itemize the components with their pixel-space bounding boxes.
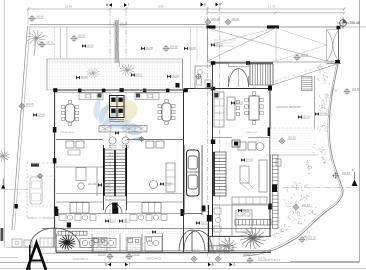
column P2 top wall: [78, 89, 81, 93]
roof terrace diagonal 1: [208, 28, 327, 61]
left building left wall: [54, 90, 56, 228]
benchmark circle 200.45: [337, 17, 360, 29]
spot marker garden 2: [141, 47, 153, 51]
svg-text:K: K: [352, 168, 354, 172]
palm bottom centre: [219, 239, 237, 254]
survey marker bottom D: [215, 250, 225, 263]
washer units: [80, 239, 116, 248]
wc fixtures rb: [197, 70, 212, 88]
island chairs: [236, 100, 239, 115]
garage car body: [187, 150, 200, 196]
spot marker under fireplace: [115, 131, 119, 135]
spot marker terrace: [315, 112, 327, 116]
dining table right building: [245, 92, 263, 124]
roof terrace bottom band: [327, 63, 342, 65]
round tables centre: [109, 137, 129, 148]
lower terrace step box: [276, 159, 281, 166]
entrance door arcs: [229, 68, 249, 87]
column P4 top wall: [120, 88, 124, 92]
svg-text:200.48: 200.48: [212, 18, 220, 21]
plant curve 5: [293, 212, 306, 225]
left building lower-left wall: [55, 228, 57, 252]
kitchen sink left: [86, 94, 90, 98]
kitchen counter left dividers: [85, 93, 97, 100]
section arrow B bottom: [105, 263, 111, 267]
road kerb curve outer: [243, 62, 343, 256]
spot marker garden 3: [184, 47, 196, 51]
spot marker terrace 2: [298, 115, 310, 119]
benchmark flag right: [352, 168, 358, 186]
gate path line 2: [66, 27, 68, 58]
sideboard row: [99, 126, 147, 133]
survey marker near fan: [294, 54, 309, 61]
svg-text:240.95: 240.95: [36, 16, 44, 19]
setback dashed vertical: [54, 27, 56, 58]
kitchen counter rb: [214, 92, 224, 127]
spot marker rb hall: [231, 101, 243, 105]
watermark small waves: [128, 131, 144, 140]
easel triangle: [27, 243, 46, 270]
spot marker rb living: [241, 158, 253, 162]
svg-text:200.90: 200.90: [98, 253, 106, 256]
column RB x270 mid: [268, 128, 271, 137]
kitchen dark appliance: [215, 93, 219, 98]
garage gate arcs right: [184, 231, 212, 250]
wall chunk left bottom: [55, 209, 58, 216]
palm small upper: [87, 68, 100, 79]
sideboard X left: [99, 126, 111, 133]
plot boundary top fence line 2: [30, 26, 366, 28]
plant curve extra 1: [322, 154, 332, 165]
survey marker courtyard: [195, 73, 202, 80]
interior wall rb y137 b: [248, 137, 270, 139]
carport survey marker: [37, 173, 43, 179]
spot marker bottom: [152, 230, 163, 234]
right building top wall: [212, 62, 273, 64]
svg-text:202.36: 202.36: [308, 237, 316, 240]
entrance steps flight: [250, 64, 273, 85]
retaining wall pillar: [272, 185, 277, 193]
interior wall y193: [56, 193, 184, 195]
survey marker bottom B: [98, 253, 114, 260]
svg-text:200.66: 200.66: [78, 35, 86, 38]
survey marker centre living: [138, 136, 144, 142]
roof terrace label lines: [214, 40, 236, 46]
kitchen appliances rb: [214, 99, 224, 120]
interior vertical x162: [162, 228, 164, 252]
hedge speckle right 3: [325, 108, 333, 118]
terrace small stair: [302, 77, 313, 91]
spot marker rb court2: [238, 209, 249, 213]
cypress tall centre: [115, 20, 120, 67]
wc row left unit: [59, 215, 96, 221]
column left wall lower: [54, 207, 57, 214]
column passage corner: [207, 83, 211, 88]
L-sofa right unit: [166, 163, 175, 192]
fireplace upper boxes: [110, 96, 125, 118]
terrace right wall: [314, 76, 316, 130]
palm left edge: [0, 150, 10, 162]
spot marker left court: [131, 73, 142, 77]
terrace roof slope dashed: [271, 62, 336, 83]
spot marker left wall: [33, 113, 45, 117]
hedge speckle right 2: [319, 94, 332, 103]
stair centre rail: [114, 150, 116, 196]
window 3pane right unit: [142, 203, 161, 214]
interior vertical x126 stairwell: [126, 145, 128, 210]
utility room centre: [145, 237, 162, 252]
svg-text:13.75: 13.75: [268, 5, 275, 9]
vanity desk left unit: [76, 168, 86, 181]
stair treads double flight: [105, 150, 125, 196]
section arrow G bottom: [125, 263, 131, 267]
fireplace inner dark 4: [118, 109, 122, 113]
page frame right border: [359, 0, 361, 262]
interior wall rb y137: [213, 137, 233, 139]
hedge speckle right 4: [318, 122, 329, 132]
fireplace hood lines: [110, 120, 125, 122]
column RB x270 low: [268, 204, 272, 210]
spot marker corridor R: [119, 219, 130, 223]
svg-text:E: E: [204, 3, 206, 7]
plot bottom small line: [0, 257, 18, 259]
veranda hatched area: [47, 59, 183, 90]
entrance door leaves: [229, 76, 249, 86]
secondary dimension line right: [207, 12, 344, 14]
carport label dark: [31, 164, 39, 167]
kitchen range dark right: [136, 94, 140, 98]
section arrow D top: [216, 3, 223, 7]
svg-text:202.15: 202.15: [192, 250, 200, 253]
right building right wall top: [269, 63, 271, 89]
plant curve 1: [312, 144, 325, 154]
fireplace inner dark 1: [111, 98, 115, 102]
page frame left border: [4, 0, 6, 247]
watermark yellow glow: [104, 98, 138, 122]
left dimension line y189: [0, 188, 28, 190]
stair dark wall rb: [213, 152, 215, 196]
plant curve extra 5: [303, 231, 311, 242]
svg-text:200.45: 200.45: [232, 18, 240, 21]
column left wall mid: [53, 127, 57, 133]
interior vertical x120 lower: [119, 228, 121, 252]
survey marker 200.50: [332, 172, 350, 179]
armchair pair right unit: [146, 141, 164, 148]
svg-text:200.58: 200.58: [170, 46, 178, 49]
svg-text:B': B': [219, 3, 222, 7]
plot bottom left line: [4, 247, 92, 249]
terrace edge dashed: [270, 127, 315, 129]
store room right: [210, 237, 229, 252]
palm right of veranda: [120, 64, 134, 76]
column bottom left: [67, 223, 71, 228]
wc room right building: [195, 66, 213, 89]
stairwell left wall dark: [103, 148, 105, 196]
spot marker roof terrace: [211, 43, 223, 47]
boundary black post: [15, 204, 18, 209]
entrance door centre line: [238, 69, 240, 88]
svg-text:Γ: Γ: [128, 3, 130, 7]
survey marker 240.95 top-left: [29, 15, 44, 22]
coffee table rb: [240, 166, 249, 183]
fireplace inner dark 3: [111, 109, 115, 113]
column mid-bottom: [113, 208, 119, 214]
column RB x270 top: [268, 86, 272, 91]
svg-text:B: B: [106, 3, 108, 7]
svg-text:ΑΣΚΕΠΗΣ ΒΕΡΑΝΤΑ: ΑΣΚΕΠΗΣ ΒΕΡΑΝΤΑ: [276, 105, 301, 109]
section arrow E bottom: [208, 263, 214, 267]
interior wall y138 right: [127, 139, 184, 141]
survey marker right court 1: [205, 18, 220, 25]
gate double door arc left: [30, 228, 54, 247]
round table right unit: [150, 181, 158, 189]
spot marker corridor L: [105, 219, 116, 223]
bathroom tile right: [127, 238, 141, 252]
svg-text:E: E: [212, 263, 214, 267]
gate path line 1: [59, 27, 61, 58]
right building top zone wall: [186, 88, 270, 90]
entry double door arc centre b: [192, 230, 205, 251]
bbq area rects: [12, 239, 32, 247]
plant curve 2: [306, 160, 312, 174]
top dimension end ticks: [27, 8, 346, 11]
plant curve extra 3: [288, 209, 301, 220]
window 3pane left unit: [70, 203, 89, 214]
veranda left edge line: [46, 59, 48, 90]
roof terrace right edge: [338, 27, 340, 62]
column RB top-left: [211, 61, 216, 65]
easel crossbar: [30, 260, 44, 262]
section arrow D bottom: [230, 263, 237, 267]
roof terrace mid vertical: [275, 27, 277, 62]
column RB x212 mid: [211, 87, 216, 91]
column RB x212 low: [211, 140, 216, 145]
column veranda right corner: [176, 83, 180, 88]
roof terrace top wall chunk 1: [207, 25, 216, 28]
carport inner dashes: [27, 176, 54, 206]
fireplace block frame: [110, 96, 125, 118]
plant bottom curve: [272, 228, 285, 239]
kitchen counter right unit: [135, 93, 159, 100]
wc rb lower: [214, 208, 221, 232]
survey marker 202.36: [299, 236, 317, 243]
sideboard dividers: [105, 126, 141, 133]
svg-text:8.90: 8.90: [158, 5, 164, 9]
window band wall upper right: [127, 201, 184, 203]
spot marker garden 1: [82, 44, 94, 48]
garage left wall: [183, 145, 185, 215]
kitchen row rb bottom: [232, 197, 267, 204]
column RB entr right: [246, 61, 250, 65]
entry double door arc centre: [179, 230, 192, 251]
svg-text:201.36: 201.36: [352, 88, 360, 91]
roof terrace outline: [208, 27, 339, 62]
kitchen range dark left: [98, 94, 102, 98]
bathroom fixtures left: [94, 239, 105, 244]
carport dashed boundary: [27, 163, 54, 218]
carport car outline: [30, 177, 42, 204]
gate double door arc left b: [54, 228, 80, 247]
roof terrace diagonal 3: [208, 28, 277, 45]
spot marker veranda 2: [167, 75, 179, 79]
section line E vertical: [207, 7, 209, 258]
roof terrace right top chunk: [337, 26, 341, 29]
interior vertical x92: [91, 228, 93, 252]
left building bottom wall: [56, 251, 271, 253]
svg-text:204.80: 204.80: [88, 182, 97, 186]
column P5 top wall: [143, 89, 146, 93]
hedge speckle right 1: [316, 74, 330, 85]
column RB bottom: [207, 215, 212, 222]
sideboard X right: [123, 126, 147, 133]
pergola row left: [58, 231, 87, 235]
entrance landing: [229, 63, 249, 67]
bottom palm fence: [209, 246, 233, 251]
kitchen sink right: [148, 94, 152, 98]
lower room rb walls: [213, 204, 271, 206]
column left wall low: [53, 158, 57, 164]
interior vertical x142: [141, 228, 143, 252]
chairs pair rb: [238, 142, 264, 151]
roof terrace diagonal 4: [276, 28, 327, 45]
svg-text:ΚΑΤΟΨΗ 1: ΚΑΤΟΨΗ 1: [73, 257, 88, 261]
benchmark flag left: [1, 179, 5, 189]
axis dash line right: [283, 186, 357, 188]
armchair pair left unit: [66, 141, 84, 155]
column P1 top wall: [53, 88, 57, 92]
plant curve extra 4: [280, 224, 291, 232]
roof terrace diagonal 2: [208, 28, 277, 61]
pergola top rects: [40, 238, 56, 247]
top dimension line: [28, 8, 344, 10]
left building top wall: [54, 89, 188, 91]
plot boundary left slant outer: [12, 26, 28, 230]
veranda right edge line: [182, 59, 184, 90]
plant curve 4: [285, 190, 297, 207]
lower terrace dots: [270, 129, 316, 155]
interior vertical x182 lower: [183, 214, 185, 253]
kitchen counter left unit: [79, 93, 103, 100]
title block divider: [290, 261, 360, 263]
svg-text:B: B: [105, 263, 107, 267]
svg-text:Γ: Γ: [129, 263, 131, 267]
gate door centre post: [53, 228, 55, 247]
left building right wall: [183, 90, 185, 214]
survey marker garden mid: [71, 35, 86, 42]
roof terrace diagonal 5: [276, 45, 327, 61]
svg-text:200.45: 200.45: [350, 21, 360, 25]
interior wall x97 room: [96, 167, 98, 196]
survey marker 204.25 left: [19, 103, 34, 110]
svg-text:ΚΑΤΟΨΗ 3: ΚΑΤΟΨΗ 3: [265, 258, 280, 262]
hedge speckle extra 3: [318, 100, 326, 111]
right building right wall: [269, 89, 271, 237]
plot boundary top fence line 1: [30, 24, 208, 26]
svg-text:200.92: 200.92: [132, 253, 140, 256]
passage line x197: [196, 27, 198, 63]
right building bottom wall: [208, 235, 271, 237]
garage right wall: [201, 145, 203, 215]
plant curve extra 2: [300, 195, 310, 202]
hedge speckle extra 2: [331, 86, 337, 94]
wall chunk right bottom: [181, 209, 184, 216]
page frame bottom outer line: [0, 268, 366, 270]
interior wall y138 left: [56, 139, 103, 141]
wc row right unit: [130, 215, 167, 221]
svg-text:ΚΑΤΟΨΗ 2: ΚΑΤΟΨΗ 2: [146, 257, 161, 261]
plot bottom fence line: [39, 252, 251, 254]
column garage right top: [202, 206, 206, 212]
svg-text:200.70: 200.70: [46, 42, 54, 45]
dark plant symbol: [59, 235, 76, 249]
spot marker veranda 1: [76, 76, 88, 80]
spot marker right unit: [160, 182, 172, 186]
boundary corner riser: [27, 9, 29, 25]
stairwell right wall dark: [125, 148, 127, 196]
section arrow G top: [124, 3, 130, 7]
central arch door: [105, 204, 122, 214]
interior wall y228: [42, 227, 271, 229]
survey marker veranda: [163, 45, 178, 52]
column P6 top wall: [166, 89, 169, 93]
roof terrace right bottom chunk: [335, 60, 340, 64]
interior wall y167: [56, 166, 104, 168]
garage door line: [184, 213, 202, 215]
entrance steps border: [250, 64, 273, 85]
big palm bottom right: [240, 227, 266, 249]
bathroom tile left: [93, 238, 107, 252]
plant curve 6: [308, 206, 318, 215]
section line D vertical: [219, 7, 221, 258]
section arrow B top: [106, 3, 112, 7]
left building top wall lower line: [54, 91, 188, 93]
svg-text:200.90: 200.90: [288, 137, 296, 140]
right building wall x208 lower: [208, 205, 210, 252]
column P7 top wall: [184, 88, 188, 92]
plot boundary left slant inner: [15, 26, 31, 230]
section line B vertical: [109, 11, 111, 258]
stair flight rb: [214, 152, 226, 196]
column P3 top wall: [102, 89, 105, 93]
svg-text:ΚΟΥΖΙΝΑ: ΚΟΥΖΙΝΑ: [83, 89, 93, 92]
plant curve 3: [291, 182, 307, 191]
bed rb lower: [236, 210, 252, 232]
section arrow E top: [201, 3, 207, 7]
dining table left unit: [62, 100, 79, 125]
kitchen row dividers rb: [239, 197, 260, 204]
svg-text:200.45: 200.45: [301, 54, 309, 57]
survey marker 201.36 right: [344, 88, 361, 95]
svg-text:200.50: 200.50: [342, 172, 350, 175]
veranda inner line: [47, 61, 183, 63]
svg-text:202.98: 202.98: [216, 250, 224, 253]
kitchen island rb: [227, 97, 235, 120]
sofa tv rb: [259, 160, 267, 192]
window band wall upper: [56, 201, 104, 203]
page frame bottom line: [0, 262, 360, 264]
svg-text:ΚΑΘΙΣΤΙΚΟ: ΚΑΘΙΣΤΙΚΟ: [246, 131, 258, 134]
kitchen counter right dividers: [141, 93, 153, 100]
survey marker 200.70 garden: [39, 41, 54, 48]
passage line x190: [190, 27, 192, 89]
vanity stool: [78, 183, 84, 189]
svg-text:12.45: 12.45: [65, 5, 72, 9]
spot marker left unit: [98, 183, 110, 187]
svg-text:ΚΟΥΖΙΝΑ: ΚΟΥΖΙΝΑ: [139, 89, 149, 92]
survey marker 200.26: [293, 204, 311, 211]
fireplace rb: [232, 140, 240, 147]
fence row right building: [235, 220, 271, 226]
